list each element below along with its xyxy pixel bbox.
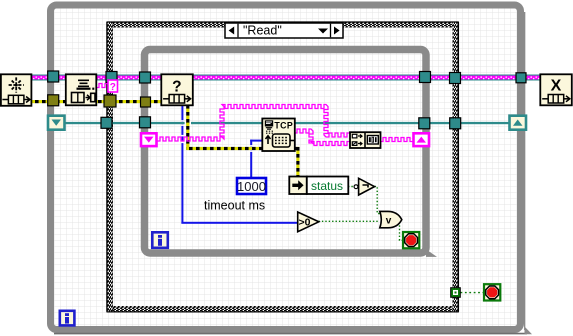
svg-text:>0: >0	[299, 217, 311, 229]
node: Get Queue Status	[161, 74, 193, 105]
tunnel: boolean stop through case right	[451, 288, 461, 298]
wire: integer count from queue-status node to Greater-Than-0	[181, 104, 298, 224]
tunnel: connection refnum through inner loop right	[419, 118, 430, 129]
Or gate	[380, 211, 402, 227]
shift register: connection refnum right (up arrow)	[510, 116, 527, 130]
tunnel: queue wire through case left	[106, 72, 117, 83]
node: Release Queue	[540, 74, 572, 105]
shift register: connection refnum left (down arrow)	[48, 116, 65, 130]
svg-text:?: ?	[110, 82, 116, 93]
wire: error cluster from Obtain Queue through Dequeue to queue-status node	[30, 100, 162, 103]
case selector terminal "?"	[108, 80, 118, 93]
case structure "Read" border	[107, 22, 459, 312]
tunnel: connection refnum through case left	[101, 117, 112, 128]
tunnel: queue wire through outer loop left	[48, 71, 59, 82]
inner loop stop terminal (red stop)	[403, 232, 419, 248]
wire: Not gate output down to Or gate	[375, 187, 381, 214]
wire: error cluster from TCP Read to Unbundle status	[294, 147, 300, 177]
svg-text:X: X	[551, 78, 562, 95]
numeric constant 1000	[237, 178, 266, 194]
wire: timeout 1000 to TCP Read	[250, 140, 263, 178]
svg-text:status: status	[311, 179, 343, 193]
wire: data string from TCP Read to string node	[294, 129, 350, 146]
wire: Greater-Than-0 output to Or gate	[319, 220, 380, 222]
node: string split/concat	[350, 132, 381, 148]
outer loop stop terminal (red stop)	[484, 284, 500, 300]
while loop W2 (inner) border	[145, 50, 533, 335]
wire: leftover string from left shift register around to string node	[157, 105, 350, 142]
tunnel: error wire through outer loop left	[48, 95, 59, 106]
tunnel: queue wire through inner loop left	[140, 72, 151, 83]
unbundle by name: arrow box	[289, 177, 307, 195]
tunnel: queue wire through outer loop right	[516, 73, 526, 83]
shift register: leftover string right (up arrow)	[414, 133, 430, 146]
svg-text:v: v	[386, 216, 392, 227]
svg-text:TCP: TCP	[274, 120, 293, 130]
tunnel: error wire through inner loop left	[141, 97, 151, 107]
tunnel: error wire through case left	[104, 95, 116, 107]
wire: TCP connection refnum across loop (shift registers)	[64, 122, 510, 124]
grid inside outer while loop	[54, 8, 518, 326]
svg-text:1000: 1000	[237, 179, 266, 194]
wire: string command from Dequeue to case selector terminal	[96, 84, 108, 88]
outer loop iteration terminal i	[60, 311, 75, 326]
wire: queue refnum (teal/magenta) from Obtain Queue to Release Queue	[30, 75, 540, 81]
tunnel: queue wire through case right	[450, 73, 461, 84]
wire crossing gaps	[181, 120, 253, 152]
wire: Or gate output to inner loop stop terminal	[400, 222, 404, 240]
svg-text:?: ?	[172, 79, 181, 96]
node: Obtain Queue	[1, 74, 32, 106]
Not gate	[354, 178, 374, 195]
svg-text:timeout ms: timeout ms	[204, 199, 265, 213]
tunnel: connection refnum through case right	[450, 118, 461, 129]
wire: string node output to right shift register	[380, 138, 413, 142]
shift register: leftover string left (down arrow)	[141, 133, 157, 146]
wire: error cluster from queue-status node down/right to TCP Read	[186, 104, 263, 150]
node: Dequeue Element	[66, 74, 97, 105]
wire: status boolean to Not gate	[348, 186, 354, 188]
node: TCP Read	[262, 119, 295, 152]
tunnel: queue wire through inner loop right	[420, 72, 431, 83]
inner loop iteration terminal i	[152, 232, 168, 248]
case selector label "Read"	[225, 23, 343, 38]
Greater Than 0? node	[298, 212, 319, 232]
tunnel: connection refnum through inner loop left	[140, 117, 151, 128]
svg-text:"Read": "Read"	[243, 24, 282, 38]
unbundle by name: status element	[307, 177, 349, 195]
wire: case boolean tunnel to outer loop stop terminal	[461, 292, 485, 294]
